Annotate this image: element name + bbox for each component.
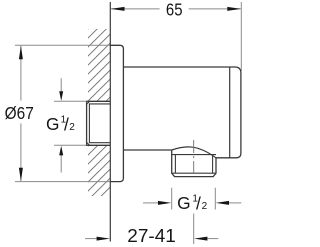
svg-text:G: G xyxy=(46,114,59,134)
svg-text:2: 2 xyxy=(69,122,75,133)
dimension line O67 xyxy=(20,46,22,181)
wall hatch xyxy=(81,7,110,243)
flange (escutcheon) xyxy=(110,45,123,181)
svg-text:Ø67: Ø67 xyxy=(5,103,34,123)
svg-text:2: 2 xyxy=(202,201,208,212)
label G1/2 outlet xyxy=(177,193,208,214)
svg-text:G: G xyxy=(177,193,190,213)
arrow O67 down xyxy=(19,168,23,182)
extension line right of body (65 dim) xyxy=(240,2,242,71)
label G1/2 inlet xyxy=(46,114,75,135)
G1/2 outlet extension lines xyxy=(172,188,216,210)
extension lines O67 xyxy=(15,45,110,181)
svg-text:27-41: 27-41 xyxy=(127,226,176,246)
inlet nipple (in wall) xyxy=(87,101,111,145)
G1/2 inlet arrows xyxy=(60,78,62,92)
outlet centerline xyxy=(193,140,195,177)
body cylinder xyxy=(123,67,240,158)
body bottom left edge xyxy=(123,149,171,151)
arrow 65 right xyxy=(227,7,241,11)
end cap seam xyxy=(229,67,231,158)
svg-text:65: 65 xyxy=(166,0,183,20)
arrow O67 up xyxy=(19,46,23,60)
wall face line xyxy=(109,2,111,242)
arrow 65 left xyxy=(111,7,125,11)
svg-text:/: / xyxy=(196,193,201,213)
G1/2 outlet dim line + arrows xyxy=(143,202,158,204)
outlet nipple xyxy=(172,150,216,177)
dimension line 65 xyxy=(111,8,240,10)
body underside curve xyxy=(172,147,216,158)
G1/2 inlet extension lines xyxy=(54,101,87,145)
27-41 dim line + arrows xyxy=(85,238,97,240)
